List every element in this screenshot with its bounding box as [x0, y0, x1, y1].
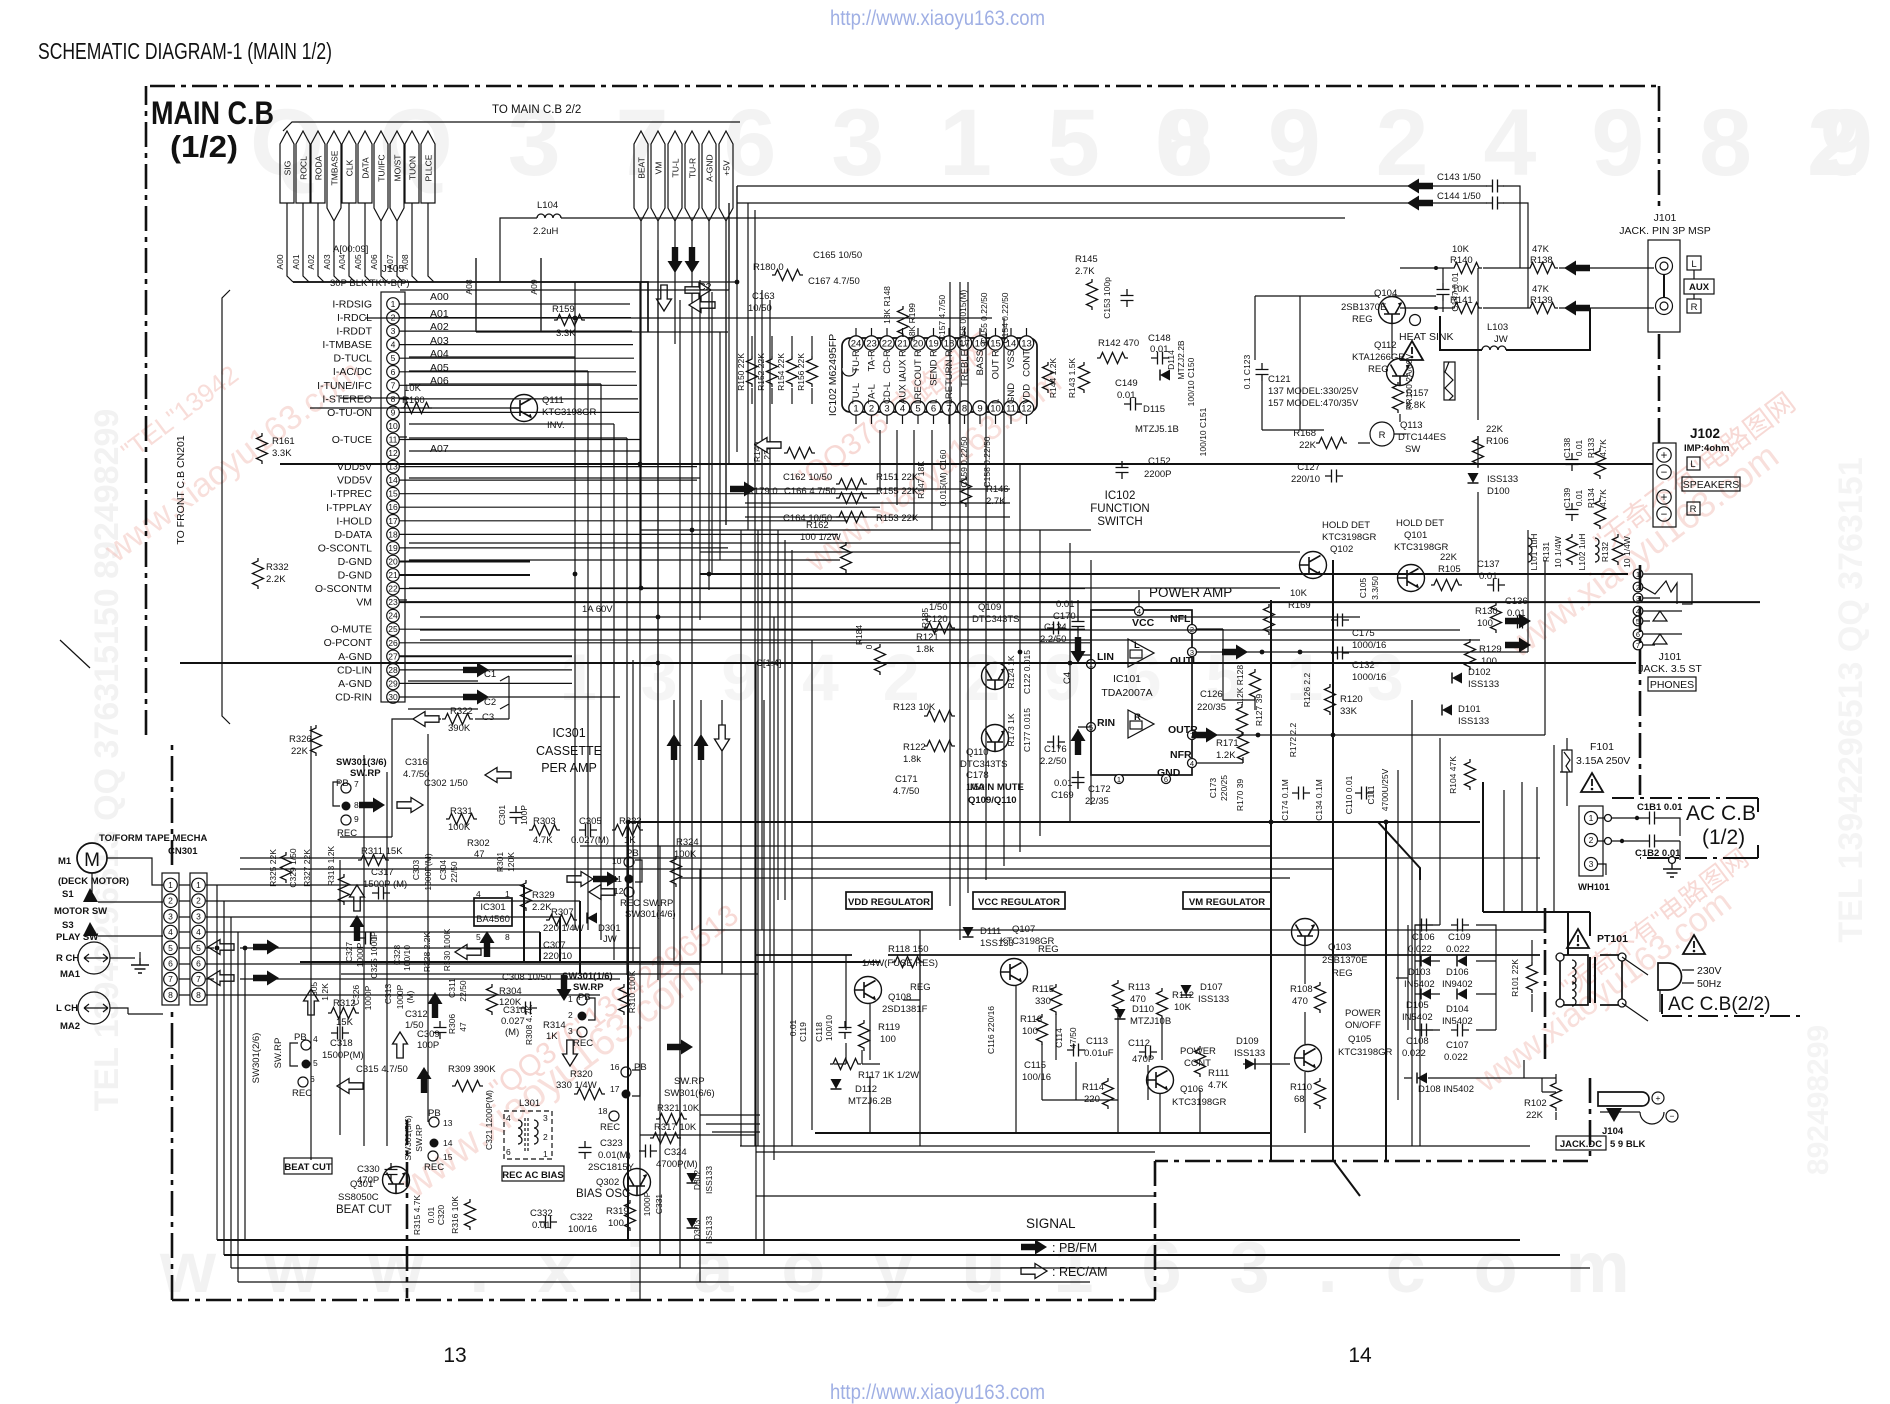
connector flag BEAT — [634, 131, 648, 221]
IC102 pin 1 — [849, 401, 863, 415]
IC102 pin 13 — [1019, 336, 1033, 350]
wire — [773, 617, 775, 1160]
phones pin 1 — [1633, 569, 1643, 579]
transistor Q108 2SD1381F REG — [855, 977, 882, 1004]
IC102 pin 11 — [1004, 401, 1018, 415]
diode D103 IN5402 — [1421, 956, 1431, 967]
CN301 pin 7a — [164, 972, 178, 986]
diode D106 IN5402 — [1457, 956, 1467, 967]
signal arrow — [730, 482, 756, 497]
inner dash boundary tape mecha — [406, 1120, 409, 1298]
connector flag A-GND — [702, 131, 716, 221]
wire — [1090, 560, 1092, 805]
connector flag SIG — [280, 131, 294, 203]
hollow arrow — [755, 438, 781, 453]
J105 pin 30 CD-RIN — [387, 691, 400, 704]
wire — [400, 289, 729, 291]
wire — [427, 734, 429, 1122]
resistor R152 — [767, 356, 778, 387]
IC102 pin 20 — [911, 336, 925, 350]
wire — [740, 1145, 1530, 1147]
wire — [1069, 543, 1071, 822]
resistor R156 — [807, 356, 818, 387]
wire — [580, 845, 1271, 847]
wire — [712, 1131, 760, 1133]
wire J105 pin 21 — [399, 574, 530, 576]
diode D111 1SS133 — [963, 927, 974, 937]
wire — [791, 550, 793, 900]
wire — [409, 437, 627, 439]
wire J105 pin 3 — [399, 330, 632, 332]
wire — [230, 917, 232, 1268]
wire — [310, 726, 312, 1160]
J105 pin 3 I-RDDT — [387, 325, 400, 338]
wire — [680, 877, 1290, 879]
CN301 pin 3a — [164, 910, 178, 924]
wire — [1397, 770, 1399, 1100]
AC C.B (1/2) box — [1612, 798, 1758, 858]
wire — [409, 383, 601, 385]
signal arrows on drops — [667, 734, 682, 760]
wire — [420, 629, 1460, 631]
wires PSU — [1560, 738, 1567, 806]
J105 pin 14 VDD5V — [387, 474, 400, 487]
wire J105 pin 2 — [399, 317, 631, 319]
CN301 pin 4b — [192, 925, 206, 939]
wire — [967, 282, 969, 893]
J105 pin 18 D-DATA — [387, 528, 400, 541]
capacitor C176cap — [1047, 736, 1065, 749]
J105 pin 15 I-TPREC — [387, 487, 400, 500]
wire J105 pin 4 — [399, 344, 633, 346]
phones pin 5 — [1633, 616, 1643, 626]
resistor R154 — [787, 356, 798, 387]
IC102 pin 8 — [957, 401, 971, 415]
wire — [1439, 738, 1441, 925]
hollow arrow below A-GND — [657, 285, 672, 311]
CN301 pin 2a — [164, 894, 178, 908]
wire — [725, 250, 727, 525]
wire J105 pin 20 — [399, 561, 530, 563]
capacitor C124cap — [1047, 622, 1065, 635]
J105 pin 4 I-TMBASE — [387, 338, 400, 351]
wire — [217, 1239, 1520, 1241]
wire — [409, 559, 840, 561]
wire — [784, 540, 786, 900]
wire — [1419, 868, 1421, 1146]
wire — [756, 1195, 1155, 1197]
wire — [679, 858, 681, 1268]
wire — [613, 424, 615, 960]
wire — [763, 700, 765, 1255]
IC102 pin 23 — [864, 336, 878, 350]
wire J105 pin 18 — [399, 533, 838, 535]
wires to J101 — [1400, 268, 1654, 308]
diode D101 ISS133 — [1442, 705, 1452, 716]
wire — [409, 356, 575, 358]
CN301 pin 3b — [192, 910, 206, 924]
wire — [363, 755, 365, 1146]
wire J105 pin 25 — [399, 628, 1085, 630]
CN301 pin 5b — [192, 941, 206, 955]
IC102 pin 14 — [1004, 336, 1018, 350]
connector flag RODA — [311, 131, 325, 203]
J105 pin 10 — [387, 420, 400, 433]
signal arrows below flags TU-L/TU-R — [668, 247, 683, 273]
J105 pin 6 I-AC/DC — [387, 366, 400, 379]
wire J105 pin 11 — [399, 439, 641, 441]
phones pin 2 — [1633, 582, 1643, 592]
wire J105 pin 15 — [399, 493, 880, 495]
connector flag PLLCE — [421, 131, 435, 203]
wire — [919, 930, 921, 1146]
wire — [231, 1267, 1590, 1269]
wire — [757, 530, 759, 1146]
wires Q104 cluster — [1300, 296, 1436, 443]
wire — [540, 258, 542, 332]
connector flag MO/ST — [390, 131, 404, 221]
diode D104 IN5402 — [1457, 989, 1467, 1000]
wire J105 pin 29 — [399, 682, 572, 684]
diode D102 ISS133 — [1452, 673, 1462, 684]
transistor Q113 DTC144ES SW — [1370, 422, 1394, 446]
capacitor C108 0.022 — [1415, 1024, 1433, 1037]
IC102 pin 15 — [988, 336, 1002, 350]
J101 AUX tag — [1684, 279, 1714, 294]
wire C143 line — [737, 186, 1520, 268]
tape head R CH MA1 — [78, 942, 110, 974]
phones pin 7 — [1633, 640, 1643, 650]
IC101 pin 4 VCC — [1135, 607, 1144, 616]
wire — [628, 821, 1480, 823]
J101 R tag — [1687, 299, 1701, 313]
J101 L tag — [1687, 256, 1701, 270]
wire — [409, 423, 614, 425]
wire J105 pin 17 — [399, 520, 848, 522]
label VM REGULATOR — [1183, 892, 1271, 909]
wire — [1536, 787, 1538, 912]
regulator rail wires — [756, 954, 1540, 956]
wire J105 pin 14 — [399, 479, 697, 481]
resistor R157 6.8K — [1393, 382, 1404, 413]
wire — [700, 573, 1628, 575]
IC102 pin 24 — [849, 336, 863, 350]
wire — [409, 450, 640, 452]
signal arrows PB line — [359, 798, 385, 813]
J102 L tag — [1687, 457, 1700, 470]
transistor Q111 KTC3198GR — [511, 395, 538, 422]
capacitor C106 0.022 — [1415, 919, 1433, 932]
wire J105 pin 28 — [399, 669, 572, 671]
J105 pin 20 D-GND — [387, 555, 400, 568]
signal arrow CD-LIN — [463, 662, 489, 677]
J105 pin 7 I-TUNE/IFC — [387, 379, 400, 392]
wire — [708, 300, 710, 590]
CN301 pin 5a — [164, 941, 178, 955]
signal arrow RIN — [1071, 729, 1086, 755]
arrow into IC301 pin5 — [480, 931, 495, 957]
wire — [386, 772, 388, 1146]
wire — [1553, 745, 1555, 912]
wires motor to CN301 — [92, 858, 163, 1014]
connector flag TMBASE — [327, 131, 341, 221]
connector flag TU-L — [668, 131, 682, 221]
wire — [640, 1134, 756, 1136]
wire — [728, 203, 730, 464]
J105 pin 28 CD-LIN — [387, 664, 400, 677]
connector flag TUON — [405, 131, 419, 203]
resistor R169 zigzag — [1264, 604, 1275, 635]
wire — [736, 186, 738, 452]
capacitor C152 2200P — [1116, 461, 1129, 479]
wire — [879, 430, 881, 490]
IC301 BA4560 box — [474, 898, 512, 926]
wire J105 pin 8 — [399, 398, 638, 400]
label BEAT CUT box — [284, 1158, 332, 1174]
wire — [640, 529, 1091, 531]
wire — [627, 822, 629, 1240]
connector flag VM — [651, 131, 665, 221]
J105 pin 24 — [387, 609, 400, 622]
wire J105 pin 22 — [399, 588, 1085, 590]
capacitor C1B2 0.01 — [1643, 835, 1661, 848]
J105 pin 5 D-TUCL — [387, 352, 400, 365]
arrows near R313 — [350, 885, 365, 911]
signal arrow LIN — [1071, 637, 1086, 663]
wire — [237, 932, 239, 1282]
diode D108 IN5402 — [1417, 1073, 1427, 1084]
wire — [639, 282, 641, 1300]
transistor Q105 POWER ON/OFF — [1295, 1045, 1322, 1072]
wire — [1503, 790, 1505, 912]
J105 pin 12 — [387, 447, 400, 460]
IC102 pin 18 — [942, 336, 956, 350]
wire — [1270, 600, 1272, 1160]
wire — [700, 1114, 760, 1116]
connector CN301 columns — [162, 873, 179, 1005]
wires around amp — [1078, 590, 1139, 788]
J105 pin 25 O-MUTE — [387, 623, 400, 636]
arrows on CN301 rows — [208, 940, 234, 955]
wire J105 pin 7 — [399, 384, 637, 386]
wire J105 pin 9 — [399, 411, 639, 413]
connector flag TU/IFC — [374, 131, 388, 221]
wire — [409, 587, 1280, 589]
diode D301 JW — [587, 913, 597, 924]
CN301 pin 2b — [192, 894, 206, 908]
wire — [931, 430, 933, 530]
J105 pin 9 O-TU-ON — [387, 406, 400, 419]
wires CN301 to switches — [206, 885, 700, 995]
IC102 pin 22 — [880, 336, 894, 350]
CN301 pin 7b — [192, 972, 206, 986]
connector flag TU-R — [685, 131, 699, 221]
capacitor C144 1/50 — [1486, 197, 1504, 210]
wire — [240, 857, 1540, 859]
IC102 pin 19 — [926, 336, 940, 350]
connector WH101 — [1579, 806, 1603, 876]
J105 pin 23 VM — [387, 596, 400, 609]
wire J105 pin 16 — [399, 506, 880, 508]
wire J105 pin 5 — [399, 357, 634, 359]
wire — [745, 516, 1010, 518]
wire — [420, 616, 1360, 618]
J105 pin 19 O-SCONTL — [387, 542, 400, 555]
connector flag +5V — [719, 131, 733, 221]
wire — [240, 868, 1333, 870]
J105 pin 22 O-SCONTM — [387, 582, 400, 595]
main border dash-dot frame — [150, 85, 1659, 88]
J102 terminal + — [1657, 448, 1671, 462]
signal arrow OUTR — [1192, 728, 1218, 743]
thick diagonal buses — [1378, 822, 1420, 880]
J102 terminal − — [1657, 507, 1671, 521]
wire — [409, 370, 588, 372]
transistor Q110 DTC343TS — [982, 725, 1009, 752]
CN301 pin 6a — [164, 957, 178, 971]
wire — [409, 477, 700, 479]
IC102 pin 10 — [988, 401, 1002, 415]
wire — [811, 640, 813, 1130]
wire J105 pin 6 — [399, 371, 636, 373]
wire — [959, 282, 961, 940]
jack J104 DC — [1598, 1092, 1649, 1106]
label VDD REGULATOR — [846, 892, 932, 909]
wire — [293, 281, 737, 283]
wire — [244, 948, 246, 1240]
J105 pin 11 O-TUCE — [387, 433, 400, 446]
wire — [600, 384, 602, 940]
connector flag CLK — [342, 131, 356, 203]
signal arrow right — [667, 1040, 693, 1055]
phones pin 6 — [1633, 629, 1643, 639]
wire — [691, 344, 693, 930]
wire C144 line — [737, 203, 1528, 308]
IC102 pin 16 — [973, 336, 987, 350]
wire — [340, 397, 409, 399]
ground at ACCB — [1663, 862, 1681, 877]
CN301 pin 1b — [192, 878, 206, 892]
wire — [339, 860, 341, 1135]
IC102 pin 3 — [880, 401, 894, 415]
wire — [777, 530, 779, 900]
J105 pin 13 VDD5V — [387, 460, 400, 473]
J105 pin 29 A-GND — [387, 677, 400, 690]
SPEAKERS tag — [1682, 477, 1740, 491]
IC102 pin 9 — [973, 401, 987, 415]
wire — [700, 929, 1545, 931]
signal arrows below — [428, 992, 443, 1018]
IC102 pin 7 — [942, 401, 956, 415]
label REC AC BIAS — [502, 1166, 564, 1181]
J105 pin 21 D-GND — [387, 569, 400, 582]
wire — [755, 663, 757, 1240]
wire — [699, 280, 701, 620]
wire — [733, 488, 1010, 490]
wire long drops to cassette — [633, 203, 770, 1146]
capacitor C109 0.022 — [1451, 919, 1469, 932]
wire — [310, 407, 510, 409]
IC101 TDA2007A box — [1091, 610, 1192, 775]
CN301 pin 8a — [164, 988, 178, 1002]
signal arrows into AUX — [1564, 261, 1590, 276]
wire — [1332, 560, 1334, 1160]
wire — [475, 258, 477, 332]
wire — [1039, 530, 1041, 836]
wire — [791, 630, 793, 1146]
wire — [896, 430, 898, 505]
op-amp R — [1128, 710, 1154, 738]
wire — [409, 542, 960, 544]
hollow arrow — [689, 298, 715, 313]
J105 pin 8 I-STEREO — [387, 393, 400, 406]
signal arrow — [1407, 179, 1433, 194]
IC102 pin 6 — [926, 401, 940, 415]
wire — [626, 438, 628, 975]
signal arrow OUTL — [1222, 645, 1248, 660]
J105 pin 1 I-RDSIG — [387, 298, 400, 311]
ground — [131, 958, 149, 973]
capacitor C147 0.01 — [1437, 283, 1450, 301]
wire — [180, 662, 1636, 664]
IC102 pin 4 — [895, 401, 909, 415]
wire — [238, 1281, 1090, 1283]
wire — [657, 250, 659, 980]
wire — [476, 331, 728, 333]
wire — [224, 1254, 1560, 1256]
wire — [679, 300, 681, 1146]
signal arrow — [1407, 196, 1433, 211]
wire J105 pin 26 — [399, 642, 1090, 644]
wire — [1003, 318, 1005, 866]
wire J105 pin 13 — [399, 466, 697, 468]
wire — [913, 430, 915, 520]
J102 terminal + — [1657, 490, 1671, 504]
phones pin 3 — [1633, 593, 1643, 603]
callout line over flags — [283, 122, 740, 131]
resistor R170 39 — [1237, 704, 1248, 735]
transformer PT101 — [1567, 929, 1589, 948]
CN301 pin 6b — [192, 957, 206, 971]
wire — [1019, 464, 1021, 852]
connector flag DATA — [358, 131, 372, 203]
wire — [574, 282, 576, 930]
wire — [365, 317, 992, 319]
wire C3 to R322 — [340, 719, 509, 837]
diode D105 IN5402 — [1421, 989, 1431, 1000]
IC102 pin 21 — [895, 336, 909, 350]
wire — [745, 502, 1010, 504]
diode D100 ISS133 — [1468, 473, 1479, 483]
wire J105 pin 19 — [399, 547, 728, 549]
J105 pin 27 A-GND — [387, 650, 400, 663]
capacitor C143 1/50 — [1486, 180, 1504, 193]
J105 pin 17 I-HOLD — [387, 515, 400, 528]
wire J105 pin 1 — [399, 303, 630, 305]
wire J105 pin 30 — [399, 696, 620, 698]
label AC C.B(2/2) — [1662, 994, 1800, 1016]
mains plug 230V 50Hz — [1683, 935, 1705, 954]
wire — [280, 463, 1653, 465]
wire — [1521, 782, 1523, 912]
wire — [719, 332, 721, 560]
J102 R tag — [1687, 502, 1700, 515]
resistor R129 100 — [1465, 639, 1476, 670]
op-amp L — [1128, 639, 1154, 667]
IC102 pin 17 — [957, 336, 971, 350]
wire — [700, 551, 1300, 553]
wire — [659, 846, 661, 1255]
